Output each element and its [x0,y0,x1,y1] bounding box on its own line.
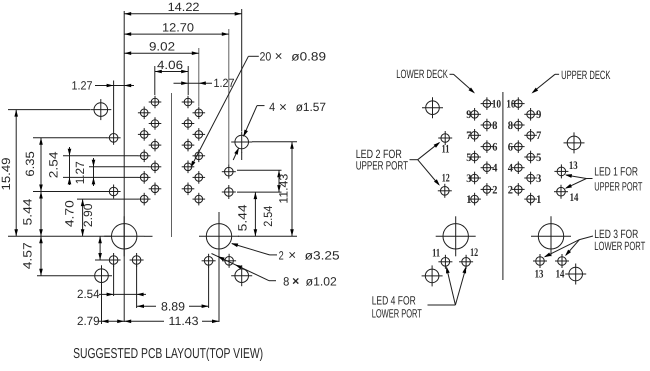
pin 3 lower deck [466,172,481,185]
svg-text:ø0.89: ø0.89 [291,49,326,63]
svg-text:1.27: 1.27 [73,161,87,184]
svg-text:2: 2 [279,248,284,262]
pin 2 lower deck [481,183,498,196]
pad hole C3 (0.89) [182,139,195,152]
pad hole B3 (0.89) [149,139,162,152]
pad hole 1.57 F2 [231,132,252,153]
wire: ext line y=236.3 right [238,235,297,237]
pad hole A4 (0.89) [138,171,151,184]
pad hole B5 (0.89) [149,183,162,196]
svg-text:8.89: 8.89 [161,299,185,313]
pad hole C2 (0.89) [182,117,195,130]
pin 6 upper deck [508,140,525,153]
svg-text:×: × [275,49,283,64]
svg-text:UPPER DECK: UPPER DECK [561,68,610,82]
pin 5 lower deck [466,151,481,164]
wire: ext line x=113.6 bottom [113,265,115,296]
svg-text:LED 1 FOR: LED 1 FOR [594,165,638,179]
pad hole 1.57 F3 [91,265,112,286]
pad LED hole L4 [222,185,236,199]
wire: main left vertical line [123,11,125,322]
pin 3 upper deck [524,172,541,185]
pad hole 1.57 F1 [90,99,111,120]
pin 4 upper deck [508,161,525,174]
svg-text:4: 4 [508,163,513,175]
wire: ext line y=275.7 [37,275,91,277]
svg-text:8: 8 [508,120,513,132]
pin 7 upper deck [524,129,541,142]
svg-text:7: 7 [536,130,541,142]
pad hole D3 (0.89) [193,150,206,163]
pad hole 1.57 G2 [564,132,585,153]
svg-text:LOWER PORT: LOWER PORT [372,307,423,321]
pad hole 1.02 E2 [130,253,144,267]
wire: ext line 12.70 right [228,29,230,165]
svg-text:10: 10 [492,99,502,111]
wire: right hole center line [218,212,220,322]
svg-text:2.54: 2.54 [261,205,275,226]
svg-text:LED 4 FOR: LED 4 FOR [372,293,416,307]
callout arrow 4 x 1.57 second [233,147,240,160]
pin 14 LED lower [555,254,569,281]
mounting hole 3.25 H1 [104,216,144,256]
pin 7 lower deck [466,129,481,142]
callout LED 4 [372,266,468,321]
mounting hole 3.25 H3 [436,216,476,256]
svg-text:2.90: 2.90 [81,203,95,227]
svg-text:4: 4 [492,163,497,175]
svg-text:12: 12 [442,173,450,185]
svg-text:1: 1 [536,194,541,206]
svg-text:9: 9 [466,109,471,121]
svg-text:3: 3 [466,173,471,185]
svg-text:13: 13 [569,160,578,172]
dimension 15.49 [0,110,18,237]
pin 6 lower deck [481,140,498,153]
svg-text:3: 3 [536,173,541,185]
pin 11 LED [438,131,452,155]
pad hole B2 (0.89) [149,117,162,130]
dimension 2.90 [81,203,102,260]
pad hole C4 (0.89) [182,161,195,174]
pad hole A2 (0.89) [138,128,151,141]
dimension 1.27 mid [73,158,95,186]
pad hole 1.57 F4 [231,265,252,286]
svg-text:13: 13 [535,269,544,281]
dimension 5.44 right [235,192,257,236]
pad hole D2 (0.89) [193,128,206,141]
svg-text:8: 8 [283,274,289,288]
callout 8 x 1.02 [212,254,338,289]
svg-text:20: 20 [260,49,272,63]
pad hole A5 (0.89) [138,193,151,206]
svg-text:4.57: 4.57 [20,242,34,269]
wire: ext line y=177.4 [63,176,138,178]
pad hole C5 (0.89) [182,183,195,196]
dimension 11.43 right [276,142,293,237]
dimension 6.35 [23,138,43,192]
wire: ext line y=155.8 [63,155,138,157]
dimension 14.22 [124,0,242,15]
dimension 2.54 right [261,170,281,226]
dimension 2.54 bottom [77,287,146,301]
svg-text:14.22: 14.22 [168,0,200,14]
callout LED 1 [564,165,643,194]
node LOWER DECK label [396,67,476,95]
pin 8 upper deck [508,119,525,132]
pin 10 lower deck [481,97,502,110]
pad hole A1 (0.89) [138,107,151,120]
svg-text:6: 6 [508,142,513,154]
svg-text:14: 14 [556,269,565,281]
svg-text:✕: ✕ [292,278,300,288]
dimension 4.06 [155,58,188,74]
svg-text:11.43: 11.43 [169,314,199,328]
dimension 1.27 left [72,79,135,93]
pin 12 LED lower [459,247,478,269]
wire: ext line y=166.8 [89,166,149,168]
pin 1 lower deck [466,193,481,206]
svg-text:6: 6 [492,142,497,154]
dimension 1.27 right [174,76,235,90]
pin 13 LED [554,160,577,179]
wire: ext line y=191.5 [33,191,107,193]
callout LED 2 [356,140,442,187]
pad LED hole L1 [107,131,121,145]
svg-text:LOWER DECK: LOWER DECK [396,67,448,81]
svg-text:15.49: 15.49 [0,157,13,190]
wire: ext line 14.22 right [241,9,243,160]
svg-text:9.02: 9.02 [149,40,175,54]
dimension 4.57 [20,236,42,275]
dimension 2.54 left [46,147,71,185]
svg-text:×: × [288,248,296,263]
svg-text:ø1.02: ø1.02 [306,274,337,288]
pin 8 lower deck [481,119,498,132]
pad hole 1.57 G4 [565,264,586,285]
dimension 9.02 [124,40,199,56]
svg-text:11.43: 11.43 [276,173,290,203]
pad hole D4 (0.89) [193,171,206,184]
svg-text:5: 5 [466,152,471,164]
pad hole 1.02 E4 [222,254,236,268]
pin 5 upper deck [524,151,541,164]
wire: ext line y=170.3 right [237,169,282,171]
svg-text:2: 2 [492,184,497,196]
pad hole 1.57 G1 [422,97,443,118]
wire: deck separation center line [502,92,504,280]
pad hole C1 (0.89) [182,96,195,109]
dimension 8.89 [137,299,209,313]
svg-text:ø3.25: ø3.25 [305,248,340,262]
pin 4 lower deck [481,161,498,174]
pin 1 upper deck [524,193,541,206]
wire: ext line x=113.6 top [113,81,115,132]
pad LED hole L3 [222,165,236,179]
svg-text:5: 5 [536,152,541,164]
pad hole 1.02 E3 [202,254,216,268]
wire: ext line y=109.6 [8,109,90,111]
node UPPER DECK label [530,68,610,95]
caption [73,346,263,362]
wire: ext line 9.02 right [198,48,200,106]
wire: connector center line [171,93,173,237]
pad hole D5 (0.89) [193,193,206,206]
svg-text:UPPER PORT: UPPER PORT [356,159,409,173]
svg-text:4: 4 [269,100,275,114]
svg-text:×: × [279,99,287,114]
svg-text:UPPER PORT: UPPER PORT [594,179,643,193]
pin 9 upper deck [524,108,541,121]
wire: ext line x=208.6 bottom [208,266,210,308]
wire: ext line y=236.3 hole centerline [8,235,112,237]
pin 2 upper deck [508,183,525,196]
svg-text:12: 12 [470,247,478,259]
svg-text:ø1.57: ø1.57 [296,100,327,114]
svg-text:5.44: 5.44 [235,204,249,231]
svg-text:1.27: 1.27 [72,79,93,93]
pin 9 lower deck [466,108,481,121]
dimension 4.70 [63,199,85,236]
pin 11 LED lower [432,248,452,269]
svg-text:6.35: 6.35 [23,151,37,177]
pad hole D1 (0.89) [193,107,206,120]
mounting hole 3.25 H4 [531,216,571,256]
pad hole A3 (0.89) [138,150,151,163]
callout LED 3 [543,227,646,259]
svg-text:2.54: 2.54 [46,151,60,178]
callout 2 x 3.25 [230,241,340,262]
svg-text:2.79: 2.79 [77,314,100,328]
svg-text:SUGGESTED PCB LAYOUT(TOP VIEW): SUGGESTED PCB LAYOUT(TOP VIEW) [73,346,263,362]
svg-text:1: 1 [466,194,471,206]
dimension 5.44 left [20,192,42,237]
dimension 12.70 [124,20,229,36]
callout 4 x 1.57 [242,99,327,137]
svg-text:5.44: 5.44 [20,198,34,225]
svg-text:4.70: 4.70 [63,200,77,227]
svg-text:2.54: 2.54 [77,287,100,301]
svg-text:7: 7 [466,130,471,142]
svg-text:14: 14 [570,192,579,204]
wire: ext line y=260 short [95,259,107,261]
svg-text:10: 10 [506,99,516,111]
wire: ext line y=236.3 mid [144,235,153,237]
pin 10 upper deck [506,97,524,110]
pin 14 LED [554,185,579,204]
callout 20 x 0.89 [189,49,327,169]
dimension 11.43 bottom [124,314,219,328]
svg-text:9: 9 [536,109,541,121]
svg-text:12.70: 12.70 [162,20,194,34]
wire: ext line y=141.8 right [252,141,297,143]
svg-text:2: 2 [508,184,513,196]
pad hole B1 (0.89) [149,96,162,109]
svg-text:11: 11 [432,248,440,260]
svg-text:11: 11 [442,143,450,155]
wire: ext line y=137.8 [33,137,107,139]
wire: ext line y=192.1 right [237,191,282,193]
pad hole 1.57 G3 [422,265,443,286]
pad LED hole L2 [107,185,121,199]
wire: ext line x=136.6 bottom [136,265,138,308]
wire: ext line x=101.5 bottom [101,282,103,324]
dimension 2.79 [77,314,124,328]
svg-text:LOWER PORT: LOWER PORT [594,239,645,253]
pad hole B4 (0.89) [149,161,162,174]
pin 12 LED [438,173,452,198]
pin 13 LED lower [533,254,547,281]
wire: ext line 4.06 right [187,66,189,95]
wire: ext line 4.06 left [154,66,156,95]
wire: ext line y=199.1 [77,198,138,200]
pad hole 1.02 E1 [107,253,121,267]
mounting hole 3.25 H2 [199,216,239,256]
svg-text:8: 8 [492,120,497,132]
svg-text:4.06: 4.06 [157,58,183,72]
